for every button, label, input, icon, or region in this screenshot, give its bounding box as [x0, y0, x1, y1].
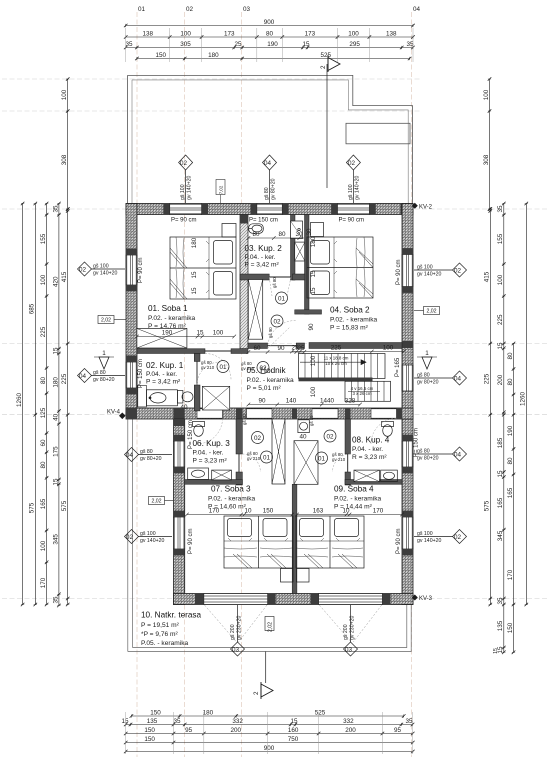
- right marker D4 kup4 window: [414, 447, 467, 461]
- svg-text:gv 210: gv 210: [241, 366, 255, 371]
- svg-text:95: 95: [394, 727, 402, 734]
- svg-text:225: 225: [331, 345, 342, 352]
- svg-text:163: 163: [313, 508, 324, 515]
- south wall glass door 1: [204, 594, 268, 605]
- interior dim row hodnik bottom: [247, 403, 362, 407]
- top dimension row 138-100-173-80-173-100-138: [124, 35, 415, 39]
- north wall window 3 P=100: [338, 204, 370, 215]
- svg-text:02: 02: [79, 267, 87, 274]
- svg-text:185: 185: [497, 437, 504, 448]
- svg-text:332: 332: [343, 718, 354, 725]
- svg-text:gv 230+20: gv 230+20: [350, 616, 356, 640]
- soba1 door leaf: [205, 350, 231, 352]
- svg-text:02: 02: [180, 160, 188, 167]
- svg-text:308: 308: [61, 154, 68, 165]
- svg-text:15: 15: [302, 41, 310, 48]
- bottom dimension row 150-95-200-160-200-95: [124, 732, 415, 736]
- svg-text:15: 15: [191, 287, 198, 295]
- svg-text:345: 345: [52, 534, 59, 545]
- svg-text:gš 80: gš 80: [242, 414, 247, 425]
- svg-text:P= 90 cm: P= 90 cm: [396, 259, 402, 285]
- svg-text:KV-2: KV-2: [419, 205, 433, 211]
- svg-text:80: 80: [252, 231, 260, 238]
- interior wall soba1/kup2 vertical: [240, 215, 248, 349]
- svg-text:3 x 26 cm: 3 x 26 cm: [352, 391, 371, 396]
- svg-text:2,02: 2,02: [426, 309, 436, 315]
- west wall window soba1 P=90: [126, 255, 137, 285]
- window marker above wall 1: [179, 155, 193, 203]
- svg-text:P= 90 cm: P= 90 cm: [138, 257, 144, 283]
- stair upper flight treads: [299, 354, 386, 379]
- terrace marker D4 kup3 window: [125, 448, 173, 462]
- mid band door gaps: [197, 409, 397, 418]
- svg-text:173: 173: [305, 31, 316, 38]
- interior dim row soba1: [135, 335, 236, 339]
- west lower window kup3 P=80: [174, 441, 185, 467]
- south exterior wall: [174, 594, 414, 605]
- svg-text:01: 01: [219, 364, 227, 371]
- east wall window soba2 P=90: [402, 255, 413, 287]
- svg-text:gš 80: gš 80: [309, 415, 314, 426]
- kup4 toilet: [382, 422, 394, 437]
- left chain L5 axes 415/225/575: [66, 207, 70, 606]
- svg-text:10: 10: [342, 508, 350, 515]
- stair walk line with arrow: [300, 360, 366, 365]
- closet hodnik: [202, 386, 229, 410]
- window marker above wall 2: [263, 155, 277, 203]
- right level box Z.02: [424, 307, 440, 315]
- svg-text:P.02. - keramika: P.02. - keramika: [247, 377, 294, 384]
- svg-text:225: 225: [40, 326, 47, 337]
- svg-text:1260: 1260: [16, 393, 23, 408]
- svg-text:80: 80: [266, 31, 274, 38]
- svg-text:90: 90: [277, 345, 285, 352]
- south wall dark piers: [195, 594, 390, 605]
- svg-text:gv 140+20: gv 140+20: [93, 271, 117, 277]
- svg-text:gš 100: gš 100: [417, 531, 433, 537]
- svg-text:7,02: 7,02: [219, 185, 224, 194]
- kup1 east wall with door: [194, 354, 200, 362]
- svg-text:*P = 9,76 m²: *P = 9,76 m²: [141, 631, 179, 638]
- nightstand soba1: [222, 224, 236, 238]
- svg-text:180: 180: [191, 237, 198, 248]
- east wall window stair P=80: [402, 365, 413, 391]
- circled door tag 02 vestibule: [271, 315, 283, 327]
- svg-text:gv 80+20: gv 80+20: [417, 380, 439, 386]
- circled door tag 01 soba3: [261, 451, 273, 463]
- circled door tag 01 soba4: [316, 452, 328, 464]
- terrace planter rect top-right: [346, 123, 410, 144]
- svg-text:P.05. - keramika: P.05. - keramika: [141, 640, 188, 647]
- bottom door marker D3 left: [231, 605, 245, 656]
- svg-text:15: 15: [497, 470, 504, 478]
- east wall window kup4 P=80: [402, 441, 413, 467]
- svg-text:01. Soba 1: 01. Soba 1: [148, 304, 188, 313]
- kup1 toilet: [177, 391, 193, 404]
- svg-text:P= 90 cm: P= 90 cm: [171, 218, 197, 224]
- svg-text:100: 100: [483, 89, 490, 100]
- west lower window soba3 P=90: [174, 517, 185, 549]
- kup2 shaft X box: [295, 242, 305, 261]
- svg-text:03: 03: [345, 647, 353, 654]
- east wall window soba4 P=90: [402, 517, 413, 549]
- svg-text:gš 100: gš 100: [417, 265, 433, 271]
- svg-text:80: 80: [40, 377, 47, 385]
- svg-text:06. Kup. 3: 06. Kup. 3: [193, 439, 231, 448]
- svg-text:150: 150: [150, 710, 161, 717]
- svg-text:02: 02: [186, 6, 194, 13]
- svg-text:P = 5,01 m²: P = 5,01 m²: [247, 385, 282, 392]
- svg-text:90: 90: [308, 323, 315, 331]
- svg-text:308: 308: [483, 154, 490, 165]
- west exterior wall upper: [126, 204, 137, 415]
- svg-text:180: 180: [310, 236, 317, 247]
- svg-text:P.02. - keramika: P.02. - keramika: [208, 496, 255, 503]
- svg-text:P.02. - keramika: P.02. - keramika: [334, 496, 381, 503]
- svg-text:100: 100: [310, 355, 317, 366]
- svg-text:15: 15: [52, 478, 59, 486]
- bed soba1: [170, 237, 236, 299]
- svg-text:03: 03: [232, 647, 240, 654]
- svg-text:328: 328: [345, 398, 356, 405]
- section line 2 bottom: [265, 652, 267, 684]
- bench soba4: [297, 569, 310, 583]
- interior wall kup2 east: [291, 215, 296, 281]
- mid band dark piers: [126, 408, 402, 419]
- svg-text:90: 90: [258, 398, 266, 405]
- interior dim row vestibule: [247, 350, 307, 354]
- svg-text:P.02. - keramika: P.02. - keramika: [148, 315, 195, 322]
- svg-text:415: 415: [484, 271, 491, 282]
- interior dim row stairs top: [290, 350, 405, 354]
- svg-text:KV-3: KV-3: [419, 596, 433, 602]
- svg-text:150: 150: [144, 736, 155, 743]
- svg-text:gš 100: gš 100: [140, 531, 156, 537]
- svg-text:2: 2: [320, 65, 327, 69]
- svg-text:10: 10: [244, 508, 252, 515]
- svg-text:gv 80+20: gv 80+20: [417, 456, 439, 462]
- svg-text:gv 80+20: gv 80+20: [140, 456, 162, 462]
- svg-text:100: 100: [213, 330, 224, 337]
- vestibule south wall with door gap: [248, 343, 268, 349]
- svg-text:173: 173: [224, 31, 235, 38]
- bottom dimension row 150-750: [124, 741, 415, 745]
- grid axis dashed verticals 01-04: [137, 12, 412, 757]
- bottom dimension row 900: [124, 750, 415, 754]
- svg-text:180: 180: [208, 52, 219, 59]
- svg-text:100: 100: [497, 274, 504, 285]
- svg-text:200: 200: [497, 374, 504, 385]
- left chain L3: [45, 202, 49, 607]
- section line 2 top: [326, 64, 328, 188]
- right chain: top 100/308: [488, 77, 492, 211]
- kup3 toilet: [193, 422, 205, 437]
- svg-text:160: 160: [288, 727, 299, 734]
- svg-text:40: 40: [299, 434, 307, 441]
- svg-text:04: 04: [79, 373, 87, 380]
- south wall glass door 2: [319, 594, 383, 605]
- circled door tag 02 kup1: [257, 362, 269, 374]
- svg-text:gš 100: gš 100: [93, 264, 109, 270]
- terrace door projection dashes: [205, 605, 382, 642]
- west exterior wall lower: [174, 419, 185, 605]
- right chain R2 fine: [502, 202, 506, 654]
- svg-text:gš 80: gš 80: [272, 277, 277, 288]
- svg-text:100: 100: [348, 31, 359, 38]
- north exterior wall hatched band: [126, 204, 413, 215]
- kup4 vanity: [381, 470, 398, 482]
- svg-text:gš 80: gš 80: [93, 370, 106, 376]
- lower interior: kup3 east wall: [236, 419, 242, 454]
- svg-text:135: 135: [497, 620, 504, 631]
- svg-text:150: 150: [144, 727, 155, 734]
- svg-text:225: 225: [61, 373, 68, 384]
- svg-text:gv 210: gv 210: [201, 365, 215, 370]
- KV-2 label: [412, 203, 418, 209]
- upper terrace outline inner: [132, 80, 408, 204]
- svg-text:15: 15: [121, 718, 129, 725]
- svg-text:02: 02: [273, 319, 281, 326]
- svg-text:02: 02: [254, 435, 262, 442]
- svg-text:2,02: 2,02: [101, 318, 111, 324]
- section flag 2 top: [328, 58, 340, 71]
- svg-text:150: 150: [263, 508, 274, 515]
- top dimension row 900: [124, 24, 415, 28]
- svg-text:04. Soba 2: 04. Soba 2: [330, 306, 370, 315]
- svg-text:15: 15: [52, 347, 59, 355]
- svg-text:80: 80: [507, 457, 514, 465]
- svg-text:P.04. - ker.: P.04. - ker.: [352, 446, 383, 453]
- interior dim row soba3: [185, 513, 294, 517]
- svg-text:200: 200: [345, 727, 356, 734]
- svg-text:gv 80+20: gv 80+20: [271, 178, 277, 200]
- svg-text:100: 100: [310, 386, 317, 397]
- kup3 vanity: [188, 468, 209, 480]
- circled door tag 01 kup2: [276, 292, 288, 304]
- svg-text:295: 295: [349, 41, 360, 48]
- svg-text:gš 100: gš 100: [348, 184, 354, 200]
- svg-text:165: 165: [497, 497, 504, 508]
- lower terrace bottom edge: [128, 605, 411, 652]
- svg-text:155: 155: [40, 233, 47, 244]
- interior dim row soba4: [295, 513, 404, 517]
- vestibule door leaf: [268, 345, 297, 347]
- svg-text:gv 80+20: gv 80+20: [93, 377, 115, 383]
- bottom dimension row 15-135-35-332-15-332-35: [124, 723, 414, 727]
- svg-text:155: 155: [497, 233, 504, 244]
- svg-text:1440: 1440: [320, 398, 335, 405]
- svg-text:200: 200: [230, 727, 241, 734]
- svg-text:35: 35: [52, 596, 59, 604]
- axis labels 01 02 03 04: [138, 6, 421, 13]
- svg-text:685: 685: [29, 303, 36, 314]
- stair lower flight treads: [345, 381, 391, 401]
- svg-text:80: 80: [40, 461, 47, 469]
- svg-text:15: 15: [310, 270, 317, 278]
- svg-text:190: 190: [162, 330, 173, 337]
- svg-text:gv 140+20: gv 140+20: [355, 176, 361, 200]
- svg-text:165: 165: [507, 487, 514, 498]
- svg-text:60: 60: [253, 345, 261, 352]
- svg-text:138: 138: [386, 31, 397, 38]
- svg-text:80: 80: [278, 231, 286, 238]
- nightstand soba2: [311, 223, 324, 237]
- svg-text:100: 100: [383, 345, 394, 352]
- svg-text:04: 04: [264, 160, 272, 167]
- svg-text:gš 90: gš 90: [268, 327, 273, 338]
- svg-text:09. Soba 4: 09. Soba 4: [334, 485, 374, 494]
- svg-text:180: 180: [203, 710, 214, 717]
- svg-text:125: 125: [40, 407, 47, 418]
- svg-text:gš 200: gš 200: [230, 624, 236, 640]
- svg-text:04: 04: [454, 376, 462, 383]
- svg-text:15: 15: [290, 718, 298, 725]
- svg-text:165: 165: [40, 498, 47, 509]
- right marker D2 soba2 window: [414, 263, 467, 277]
- svg-text:305: 305: [180, 41, 191, 48]
- center wall soba3/soba4: [292, 484, 297, 593]
- central boiler square: [298, 420, 309, 433]
- svg-text:180: 180: [52, 377, 59, 388]
- svg-text:01: 01: [263, 455, 271, 462]
- svg-text:15: 15: [310, 287, 317, 295]
- svg-text:10. Natkr. terasa: 10. Natkr. terasa: [141, 611, 202, 620]
- svg-text:35: 35: [405, 718, 413, 725]
- svg-text:150: 150: [507, 622, 514, 633]
- lower terrace left edge: [128, 415, 133, 652]
- svg-text:02: 02: [326, 434, 334, 441]
- svg-text:575: 575: [29, 502, 36, 513]
- svg-text:02: 02: [454, 268, 462, 275]
- mid separating wall band: [126, 408, 413, 419]
- svg-text:35: 35: [52, 205, 59, 213]
- interior wall soba2 west: [305, 215, 310, 315]
- svg-text:10 x 26 cm: 10 x 26 cm: [325, 361, 347, 366]
- window marker above wall 3: [346, 155, 360, 203]
- svg-text:15: 15: [191, 271, 198, 279]
- svg-text:35: 35: [497, 597, 504, 605]
- svg-text:01: 01: [138, 6, 146, 13]
- svg-text:415: 415: [61, 271, 68, 282]
- wardrobe soba1: [137, 329, 187, 349]
- svg-text:P= 150 cm: P= 150 cm: [188, 420, 194, 449]
- interior dim row kup2: [247, 236, 304, 240]
- svg-text:04: 04: [126, 452, 134, 459]
- svg-text:P.02. - keramika: P.02. - keramika: [330, 317, 377, 324]
- left chain: top 100/308: [66, 77, 70, 211]
- svg-text:gv 140+20: gv 140+20: [140, 538, 164, 544]
- svg-text:80: 80: [507, 352, 514, 360]
- svg-text:345: 345: [497, 530, 504, 541]
- bottom dimension row 150-180-525: [130, 714, 406, 718]
- right marker D2 soba4 window: [414, 530, 467, 544]
- svg-text:04: 04: [413, 6, 421, 13]
- top extension lines: [126, 28, 413, 62]
- svg-text:170: 170: [507, 569, 514, 580]
- svg-text:35: 35: [173, 718, 181, 725]
- right chain R4 1260: [525, 202, 529, 607]
- central shaft B: [294, 441, 318, 485]
- circled door tag 02 kup3: [252, 432, 264, 444]
- svg-text:P= 165: P= 165: [395, 357, 401, 377]
- svg-text:170: 170: [209, 508, 220, 515]
- svg-text:95: 95: [185, 727, 193, 734]
- svg-text:P = 15,83 m²: P = 15,83 m²: [330, 325, 369, 332]
- north wall window 2 P=80: [257, 204, 283, 215]
- svg-text:P = 14,44 m²: P = 14,44 m²: [334, 504, 373, 511]
- kup4 west wall: [345, 419, 351, 454]
- bed soba4: [296, 516, 364, 568]
- svg-text:02: 02: [348, 160, 356, 167]
- bed soba3: [224, 516, 293, 568]
- svg-text:P = 3,23 m²: P = 3,23 m²: [193, 458, 228, 465]
- wardrobe vestibule: [248, 280, 262, 340]
- stair rail dark band: [299, 378, 373, 382]
- top dimension row 35-305-25-190-15-295-35: [124, 46, 415, 50]
- east exterior wall: [402, 204, 413, 605]
- svg-text:1: 1: [425, 350, 429, 357]
- svg-text:11 x 18,8 cm: 11 x 18,8 cm: [324, 356, 349, 361]
- svg-text:750: 750: [288, 736, 299, 743]
- right chain R3: [512, 342, 516, 654]
- left marker D2 soba1 window: [78, 262, 126, 276]
- svg-text:R = 3,23 m²: R = 3,23 m²: [352, 454, 387, 461]
- horizontal dashed grid lines: [2, 79, 547, 599]
- svg-text:02: 02: [259, 365, 267, 372]
- svg-text:gv 210: gv 210: [247, 456, 261, 461]
- soba2 south / stair north wall: [309, 343, 402, 349]
- svg-text:gš 80: gš 80: [417, 449, 430, 455]
- svg-text:30: 30: [306, 228, 313, 236]
- svg-text:gš 100: gš 100: [180, 184, 186, 200]
- svg-text:170: 170: [40, 577, 47, 588]
- svg-text:525: 525: [315, 710, 326, 717]
- svg-text:gv 230+20: gv 230+20: [237, 616, 243, 640]
- svg-text:575: 575: [61, 500, 68, 511]
- svg-text:175: 175: [52, 446, 59, 457]
- svg-text:40: 40: [180, 404, 188, 411]
- svg-text:100: 100: [61, 89, 68, 100]
- kup2 washbasin: [249, 224, 264, 234]
- svg-text:03. Kup. 2: 03. Kup. 2: [245, 244, 283, 253]
- svg-text:332: 332: [232, 718, 243, 725]
- svg-text:01: 01: [318, 456, 326, 463]
- svg-text:900: 900: [264, 745, 275, 752]
- soba1 south wall: [137, 349, 205, 354]
- svg-text:02: 02: [454, 534, 462, 541]
- svg-text:170: 170: [373, 508, 384, 515]
- svg-text:25: 25: [297, 345, 305, 352]
- svg-text:gš 80: gš 80: [140, 449, 153, 455]
- west lower wall dark piers: [174, 419, 185, 605]
- svg-text:1: 1: [102, 350, 106, 357]
- kup2 south wall with door gap: [240, 274, 269, 280]
- svg-text:2,02: 2,02: [151, 499, 161, 505]
- wall vestibule/soba2 horizontal stub: [295, 310, 322, 314]
- svg-text:07. Soba 3: 07. Soba 3: [211, 485, 251, 494]
- bottom extension lines: [126, 712, 413, 754]
- svg-text:02: 02: [126, 534, 134, 541]
- left chain L2 685/575: [34, 202, 38, 607]
- bed soba2: [307, 237, 373, 298]
- svg-text:01: 01: [278, 296, 286, 303]
- left chain L4 fine: [57, 202, 61, 608]
- svg-text:P= 90 cm: P= 90 cm: [396, 528, 402, 554]
- svg-text:03: 03: [243, 6, 251, 13]
- kup3 south wall: [185, 480, 243, 485]
- svg-text:2,02: 2,02: [268, 622, 274, 632]
- svg-text:gv 140+20: gv 140+20: [417, 272, 441, 278]
